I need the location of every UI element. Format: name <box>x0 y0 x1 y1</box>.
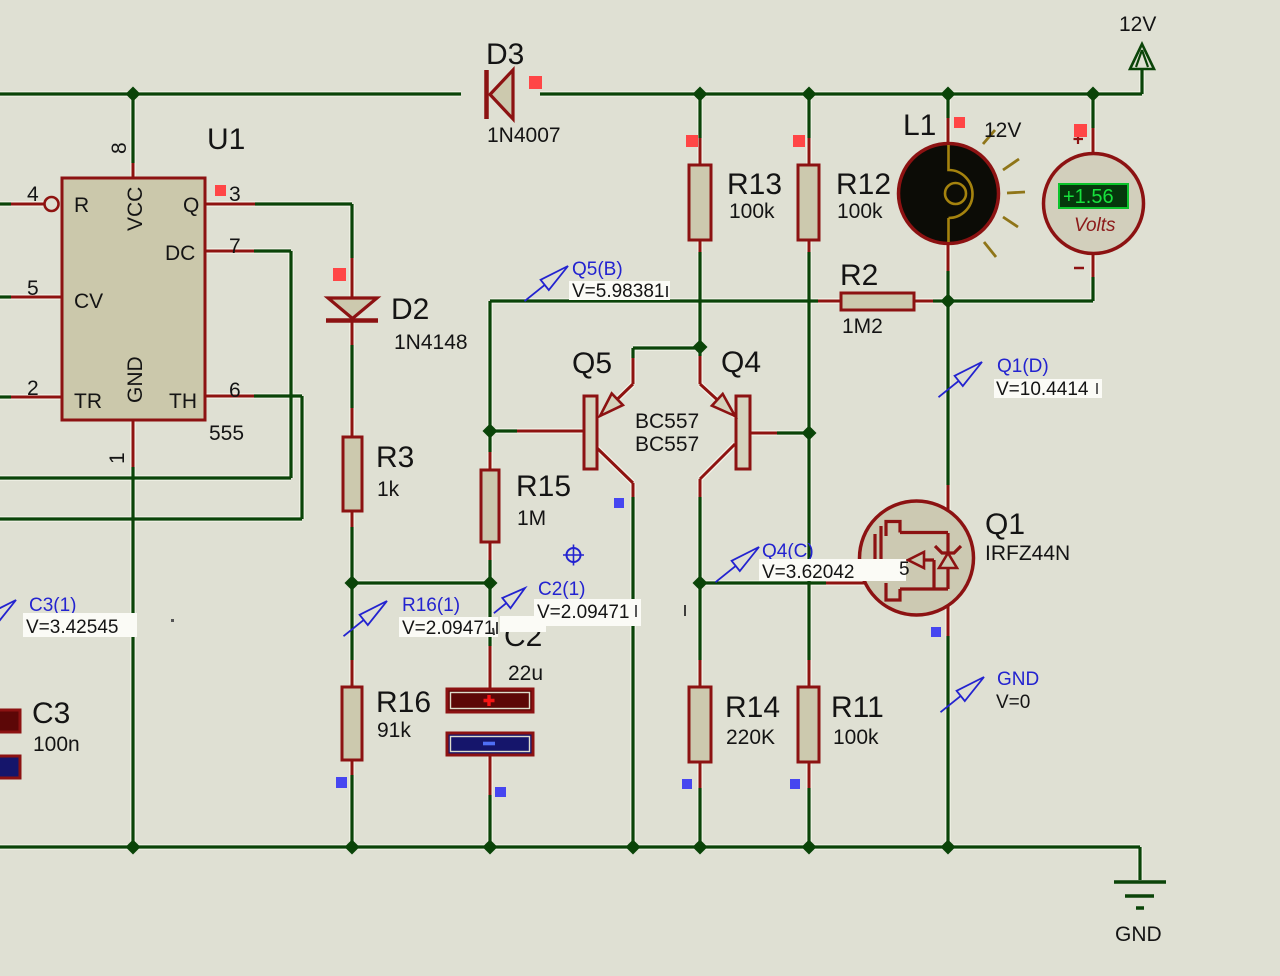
node marker red square (D2) <box>333 268 346 281</box>
svg-text:100k: 100k <box>833 726 879 749</box>
wire: C2 leads <box>488 583 491 646</box>
555 timer U1 body <box>62 178 205 420</box>
junction (809,847) <box>802 840 817 855</box>
svg-text:L1: L1 <box>903 109 936 142</box>
junction (352,583) <box>345 576 360 591</box>
node marker red square (R13) <box>686 135 698 147</box>
svg-text:555: 555 <box>209 422 244 445</box>
junction (133,847) <box>126 840 141 855</box>
wire: R14 top lead <box>698 583 701 660</box>
probe GND arrow <box>941 677 985 712</box>
svg-text:7: 7 <box>229 235 241 258</box>
C2 minus sign <box>483 742 495 746</box>
ground symbol <box>1114 882 1166 908</box>
svg-text:Q5(B): Q5(B) <box>572 259 623 280</box>
Q4 emitter arrow (PNP) <box>712 394 735 416</box>
svg-text:C3: C3 <box>32 697 70 730</box>
svg-text:220K: 220K <box>726 726 775 749</box>
probe Q5(B) value background <box>569 281 670 300</box>
svg-text:5: 5 <box>899 559 910 580</box>
svg-text:R16(1): R16(1) <box>402 595 460 616</box>
svg-text:BC557: BC557 <box>635 410 699 433</box>
diode D2 body <box>326 298 378 321</box>
junction (809,94) <box>802 87 817 102</box>
svg-text:V=10.4414: V=10.4414 <box>996 379 1089 400</box>
probe Q5(B) arrow <box>525 266 569 301</box>
svg-text:V=3.62042: V=3.62042 <box>762 562 854 583</box>
wire: Q5 base net vertical <box>488 301 491 431</box>
capacitor C2 positive plate <box>447 689 533 712</box>
wire: 12V top bus (left of D3) <box>0 92 461 95</box>
probe Q1(D) clipped digit <box>1096 383 1098 394</box>
svg-text:R13: R13 <box>727 168 782 201</box>
wire: L1 top lead <box>946 96 949 118</box>
probe R16(1) clipped digit <box>496 622 498 634</box>
svg-text:V=5.98381: V=5.98381 <box>572 281 664 302</box>
svg-text:+1.56: +1.56 <box>1063 186 1114 208</box>
stray clipped glyph near R14 <box>684 605 686 616</box>
junction (948,94) <box>941 87 956 102</box>
svg-text:100n: 100n <box>33 733 80 756</box>
wire: Q5 emitter lead <box>601 358 633 415</box>
junction (700,847) <box>693 840 708 855</box>
junction (948,301) drain node <box>941 294 956 309</box>
transistor Q4 base bar <box>736 396 750 469</box>
wire: R15 leads <box>488 431 491 452</box>
wire: R13 top lead <box>698 96 701 138</box>
transistor Q5 base bar <box>584 396 597 469</box>
svg-text:91k: 91k <box>377 719 411 742</box>
svg-text:Volts: Volts <box>1074 215 1116 236</box>
wire: Q5 base net horizontal (to R2) <box>490 299 818 302</box>
svg-text:1N4148: 1N4148 <box>394 331 468 354</box>
svg-text:1M2: 1M2 <box>842 315 883 338</box>
L1 filament <box>949 145 973 242</box>
probe Q1(D) value background <box>994 379 1102 398</box>
resistor R11 body <box>798 687 819 762</box>
Q1 gate plate lines <box>875 526 881 559</box>
stray dot <box>171 619 174 622</box>
junction (700,583) <box>693 576 708 591</box>
svg-text:Q: Q <box>183 194 199 217</box>
diode D3 body <box>487 70 514 119</box>
resistor R13 body <box>689 165 711 240</box>
junction (1093,94) <box>1086 87 1101 102</box>
node marker blue square (R14 bottom) <box>682 779 692 789</box>
svg-text:TR: TR <box>74 390 102 413</box>
wire: Q4 collector down <box>700 444 735 497</box>
probe C2(1) arrow <box>494 588 525 613</box>
junction (490,847) <box>483 840 498 855</box>
junction (490,431) Q5 base <box>483 424 498 439</box>
wire: R11 bottom to bus <box>808 762 811 788</box>
svg-text:1M: 1M <box>517 507 546 530</box>
probe Q4(C) value background <box>759 559 906 581</box>
wire: Q4 base node to R11 <box>807 433 810 660</box>
voltmeter LCD display <box>1059 184 1128 208</box>
wire: U1 pin 5 CV <box>0 295 11 298</box>
svg-text:1k: 1k <box>377 478 400 501</box>
wire halo underlay (all nets) <box>0 69 1142 880</box>
Q1 internal source finger <box>886 583 948 600</box>
wire: 12V power drop <box>1140 69 1143 94</box>
probe C3(1) value background <box>23 613 137 637</box>
svg-text:R14: R14 <box>725 691 780 724</box>
wire: U1 pin 3 Q output to D2 <box>205 203 255 206</box>
svg-text:6: 6 <box>229 379 241 402</box>
node marker blue square (Q5 collector) <box>614 498 624 508</box>
wire: Q4 collector node to Q1 gate <box>700 581 826 584</box>
svg-text:R12: R12 <box>836 168 891 201</box>
wire: U1 pin 8 VCC <box>131 96 134 163</box>
junction (809,433) Q4 base <box>802 426 817 441</box>
wire: voltmeter top lead <box>1091 96 1094 128</box>
wire: node R3/R16 to R15/C2 node <box>352 581 490 584</box>
svg-text:Q1(D): Q1(D) <box>997 356 1049 377</box>
junction (490,583) <box>483 576 498 591</box>
wire: U1 pin 1 GND to bottom bus <box>132 420 135 467</box>
svg-text:U1: U1 <box>207 123 245 156</box>
svg-text:1: 1 <box>106 452 129 464</box>
svg-text:GND: GND <box>1115 923 1162 946</box>
probe C2(1) label background over C2 <box>500 616 546 632</box>
svg-text:3: 3 <box>229 183 241 206</box>
node marker red square (R12) <box>793 135 805 147</box>
svg-text:GND: GND <box>124 356 147 403</box>
svg-text:V=2.09471: V=2.09471 <box>402 618 494 639</box>
wire: L1 bottom lead <box>947 243 950 271</box>
svg-text:D3: D3 <box>486 38 524 71</box>
node marker red square (D3) <box>529 76 542 89</box>
wire: voltmeter bottom lead to node <box>1092 253 1095 277</box>
wire: U1 pin 6 TH loop <box>205 395 254 398</box>
svg-text:BC557: BC557 <box>635 433 699 456</box>
Q1 substrate arrow <box>908 552 924 568</box>
svg-text:DC: DC <box>165 242 195 265</box>
svg-text:R11: R11 <box>831 691 884 724</box>
wire: Q4 emitter lead <box>698 348 701 356</box>
svg-text:Q1: Q1 <box>985 508 1025 541</box>
svg-text:100k: 100k <box>837 200 883 223</box>
12V power symbol <box>1130 44 1154 69</box>
junction (700,94) <box>693 87 708 102</box>
wire: U1 pin 7 DC loop <box>205 250 254 253</box>
svg-text:TH: TH <box>169 390 197 413</box>
svg-text:CV: CV <box>74 290 103 313</box>
svg-text:Q5: Q5 <box>572 347 612 380</box>
probe Q4(C) arrow <box>716 547 760 582</box>
wire: Q5 base lead <box>490 429 517 432</box>
resistor R14 body <box>689 687 711 762</box>
svg-text:22u: 22u <box>508 662 543 685</box>
svg-text:V=2.09471: V=2.09471 <box>537 602 629 623</box>
junction (700,347) emitters <box>693 340 708 355</box>
node marker blue square (R16 bottom) <box>336 777 347 788</box>
wire: Q1 drain net <box>946 301 949 485</box>
svg-text:C3(1): C3(1) <box>29 595 77 616</box>
lamp L1 body <box>899 144 999 244</box>
wire: Q5 collector to bottom bus <box>597 448 633 497</box>
wire: Q1 source to bus <box>947 589 950 636</box>
svg-text:5: 5 <box>27 277 39 300</box>
wire: 12V top bus (right of D3) <box>540 92 1142 95</box>
probe Q5(B) clipped digit <box>666 286 668 297</box>
svg-text:Q4: Q4 <box>721 346 761 379</box>
svg-text:R16: R16 <box>376 686 431 719</box>
junction (352,847) <box>345 840 360 855</box>
capacitor C3 negative plate (clipped at edge) <box>0 756 20 778</box>
probe R16(1) arrow <box>344 601 388 636</box>
L1 light rays <box>983 130 1025 257</box>
wire: U1 pin 2 TR <box>0 395 11 398</box>
node marker blue square (R11 bottom) <box>790 779 800 789</box>
svg-text:V=0: V=0 <box>996 692 1030 713</box>
svg-text:GND: GND <box>997 669 1039 690</box>
probe C2(1) value background over wire <box>534 599 641 626</box>
node marker red square (pin 3) <box>215 185 226 196</box>
origin crosshair marker <box>563 545 584 566</box>
MOSFET Q1 body circle <box>860 501 974 615</box>
voltmeter minus terminal <box>1074 267 1084 270</box>
Q1 body diode <box>935 533 961 589</box>
junction (133,94) <box>126 87 141 102</box>
probe C2(1) clipped digit <box>635 605 637 617</box>
svg-text:IRFZ44N: IRFZ44N <box>985 542 1070 565</box>
resistor R12 body <box>798 165 819 240</box>
resistor R16 body <box>342 687 362 760</box>
wire: R2 leads <box>818 300 933 303</box>
resistor R15 body <box>481 470 499 542</box>
svg-text:Q4(C): Q4(C) <box>762 541 814 562</box>
svg-text:8: 8 <box>108 142 131 154</box>
wire: R12 top lead <box>807 96 810 138</box>
Q1 internal drain finger <box>886 522 948 537</box>
svg-text:D2: D2 <box>391 293 429 326</box>
node marker blue square (Q1 source) <box>931 627 941 637</box>
wire: R13 bottom to emitter node <box>699 240 702 252</box>
node marker blue square (C2 bottom) <box>495 787 506 797</box>
svg-text:C2(1): C2(1) <box>538 579 586 600</box>
junction (633,847) <box>626 840 641 855</box>
Q5 emitter arrow (PNP) <box>600 394 623 417</box>
capacitor C2 negative plate <box>447 733 533 755</box>
svg-text:V=3.42545: V=3.42545 <box>26 617 118 638</box>
svg-text:R: R <box>74 194 89 217</box>
wire: Q5/Q4 emitter tie <box>633 348 700 358</box>
svg-text:12V: 12V <box>1119 13 1156 36</box>
svg-text:2: 2 <box>27 377 39 400</box>
wire: R12 bottom to Q4 base node <box>808 240 811 252</box>
probe C3(1) arrow (clipped) <box>0 600 16 635</box>
voltmeter body <box>1044 154 1144 254</box>
U1 pin 4 inversion bubble <box>45 197 59 211</box>
wire: R14 bottom to bus <box>699 762 702 788</box>
junction (948,847) <box>941 840 956 855</box>
C2 plus sign <box>484 695 495 706</box>
svg-text:4: 4 <box>27 183 39 206</box>
node marker red square (voltmeter) <box>1074 124 1087 137</box>
wire: D2 anode/cathode leads and net to R3 <box>351 258 354 345</box>
probe Q1(D) arrow <box>939 362 983 397</box>
wire: ground bottom bus <box>0 847 1140 880</box>
svg-text:R3: R3 <box>376 441 414 474</box>
svg-text:1N4007: 1N4007 <box>487 124 561 147</box>
voltmeter plus terminal <box>1074 135 1084 145</box>
wire: U1 pin 4 R <box>0 202 11 205</box>
resistor R2 body <box>841 293 914 310</box>
svg-text:R15: R15 <box>516 470 571 503</box>
wire: Q4 base lead to R12/R11 node <box>750 432 777 435</box>
resistor R3 body <box>343 437 362 511</box>
stray tick mark <box>493 628 494 635</box>
svg-text:100k: 100k <box>729 200 775 223</box>
svg-text:12V: 12V <box>984 119 1021 142</box>
wire: R16 bottom to bus <box>351 760 354 775</box>
capacitor C3 positive plate (clipped at edge) <box>0 710 20 732</box>
wire: R3 to R16 node <box>351 511 354 527</box>
probe R16(1) value background <box>399 617 498 637</box>
svg-text:R2: R2 <box>840 259 878 292</box>
svg-text:VCC: VCC <box>124 187 147 231</box>
node marker red square (L1) <box>954 117 965 128</box>
